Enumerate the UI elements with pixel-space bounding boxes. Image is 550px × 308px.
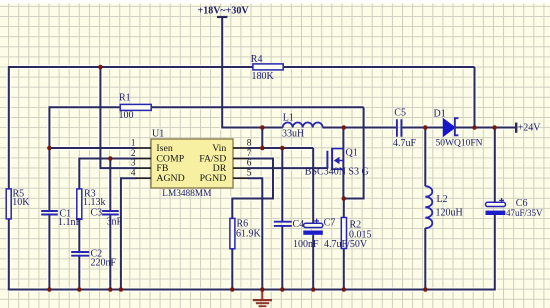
svg-text:AGND: AGND [156, 173, 184, 184]
wire: pin 6 DR to Q1 gate [248, 167, 327, 169]
svg-text:50WQ10FN: 50WQ10FN [436, 139, 483, 149]
junction node output/C6 [492, 125, 497, 130]
wire: Vin vertical pin8 to L1 input [261, 128, 263, 149]
svg-text:Isen: Isen [156, 143, 172, 154]
svg-text:L2: L2 [437, 194, 448, 205]
junction ground node PGND [260, 287, 265, 292]
svg-text:+24V: +24V [518, 122, 542, 133]
capacitor C3 [91, 208, 123, 228]
svg-text:5: 5 [247, 168, 252, 178]
svg-text:Q1: Q1 [346, 148, 358, 159]
wire: R4 right vertical to output [474, 67, 476, 128]
svg-text:33uH: 33uH [282, 128, 304, 139]
svg-text:R1: R1 [119, 92, 131, 103]
svg-text:U1: U1 [152, 129, 164, 140]
wire: +18V supply vertical to L1 [222, 18, 283, 128]
resistor R6 [230, 218, 262, 248]
wire: pin 7 FA/SD to R6 [232, 159, 273, 291]
svg-text:C5: C5 [394, 107, 406, 118]
pin 7 FA/SD [199, 148, 252, 164]
junction node output/R4 feedback [472, 125, 477, 130]
junction node C5-L2-D1 (SEPIC cap) [423, 125, 428, 130]
resistor R5 [6, 189, 30, 219]
svg-text:100: 100 [119, 110, 134, 121]
svg-text:2: 2 [131, 148, 136, 158]
svg-text:47uF/35V: 47uF/35V [506, 208, 543, 218]
wire: C3 chain [109, 159, 111, 291]
wire: L2 chain [424, 128, 426, 291]
svg-text:8: 8 [247, 138, 252, 148]
svg-text:120uH: 120uH [436, 208, 463, 219]
svg-text:Vin: Vin [212, 143, 226, 154]
wire: COMP chain R3/C2 [79, 158, 136, 291]
junction node switch/Q1 drain [342, 125, 347, 130]
pin 5 PGND [200, 168, 252, 184]
wire: FB net horizontal (R5 top / R4 / FB node) [9, 66, 475, 68]
power port +18V~+30V [198, 6, 250, 18]
svg-text:C3: C3 [91, 208, 103, 219]
junction node FB/R4 tap [98, 65, 103, 70]
junction ground node C1 [47, 287, 52, 292]
resistor R3 [77, 189, 106, 220]
pin 4 AGND [131, 168, 185, 184]
svg-text:PGND: PGND [200, 173, 227, 184]
transistor Q1 N-MOSFET [305, 148, 369, 178]
svg-text:BSC340N S3 G: BSC340N S3 G [305, 166, 369, 177]
wire: Q1 source / R2 sense node [343, 199, 345, 291]
wire: pin 5 PGND to ground [248, 178, 262, 290]
pin 2 COMP [131, 148, 185, 164]
svg-text:R4: R4 [251, 54, 263, 65]
op-amp U1 LM3488MM controller IC [151, 129, 233, 200]
capacitor C7 polarized [303, 218, 368, 251]
capacitor C1 [41, 209, 81, 229]
svg-text:3: 3 [131, 158, 136, 168]
svg-text:C4: C4 [293, 219, 305, 230]
capacitor C4 [274, 219, 319, 250]
junction ground node R2 [342, 287, 347, 292]
ground symbol [253, 290, 272, 307]
resistor R4 [251, 54, 283, 82]
capacitor C5 series [393, 107, 417, 149]
svg-text:1: 1 [131, 138, 136, 148]
wire: Isen pin 1 wire [49, 147, 136, 149]
wire: pin 8 Vin wire to C7 [248, 148, 313, 291]
junction ground node C7 [311, 287, 316, 292]
pin 1 Isen [131, 138, 173, 154]
capacitor C6 polarized [486, 198, 544, 218]
junction ground node R6 [230, 287, 235, 292]
svg-text:100nF: 100nF [293, 239, 319, 250]
svg-text:4.7uF/50V: 4.7uF/50V [324, 239, 368, 250]
wire: left vertical through R5 to ground rail [8, 66, 10, 291]
junction node Q1 source/R2 sense [342, 196, 347, 201]
junction ground node C4 [280, 287, 285, 292]
resistor R2 [341, 218, 371, 249]
pin 8 Vin [212, 138, 252, 154]
junction ground node C3 [108, 287, 113, 292]
pin 6 DR [213, 158, 252, 174]
wire: Q1 drain-source vertical [342, 128, 344, 199]
svg-text:180K: 180K [252, 71, 275, 82]
svg-text:4: 4 [131, 168, 136, 178]
svg-text:D1: D1 [434, 109, 446, 120]
inductor L2 [425, 186, 462, 228]
junction ground node AGND [119, 287, 124, 292]
wire: FB vertical to pin 3 [100, 67, 136, 168]
wire: bottom ground rail [8, 289, 495, 291]
junction node Vin pin 8 [260, 146, 265, 151]
svg-text:L1: L1 [283, 112, 294, 123]
svg-text:61.9K: 61.9K [236, 229, 262, 240]
inductor L1 [282, 112, 323, 139]
junction node Vin bypass C4 [280, 146, 285, 151]
wire: AGND pin 4 vertical [121, 177, 137, 290]
capacitor C2 [71, 248, 116, 268]
wire: C6 chain [494, 128, 496, 291]
wire: switch node to output [323, 127, 516, 129]
junction ground node L2 [423, 287, 428, 292]
resistor R1 [119, 92, 152, 120]
svg-text:1.13k: 1.13k [83, 197, 106, 208]
junction node Isen/R1-C1 [47, 146, 52, 151]
wire: Isen sense loop through R1 [49, 106, 363, 290]
svg-text:LM3488MM: LM3488MM [162, 189, 211, 199]
svg-text:1.1nF: 1.1nF [58, 217, 82, 228]
svg-text:220nF: 220nF [91, 257, 117, 268]
diode D1 schottky [434, 109, 483, 149]
svg-text:4.7uF: 4.7uF [393, 138, 417, 149]
wire: C4 chain [281, 148, 283, 291]
svg-text:+18V~+30V: +18V~+30V [198, 6, 250, 17]
svg-text:3nF: 3nF [107, 216, 123, 227]
svg-text:C7: C7 [324, 218, 336, 229]
junction node L1 input/Vin [260, 125, 265, 130]
junction ground node C2 [77, 287, 82, 292]
power port +24V [516, 122, 541, 133]
svg-text:6: 6 [247, 158, 252, 168]
svg-text:7: 7 [247, 148, 252, 158]
pin 3 FB [131, 158, 169, 174]
svg-text:10K: 10K [12, 197, 30, 208]
junction node COMP/C3 [108, 156, 113, 161]
